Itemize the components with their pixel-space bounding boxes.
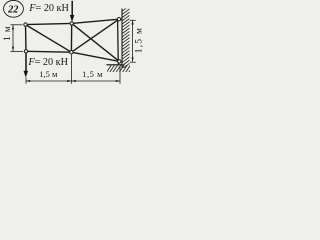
middle vertical member D-C [70,23,72,52]
dimension 1.5m right: line with arrows [132,20,134,61]
support shelf hatching under node F [106,64,134,73]
support shelf line [107,64,123,66]
node D [70,22,73,25]
diagonal member C-E [71,19,119,52]
svg-text:F= 20 кН: F= 20 кН [27,57,68,68]
node B [24,50,27,53]
svg-text:1,5 м: 1,5 м [39,69,58,79]
diagonal member D-F [72,23,120,61]
right vertical member E-F [117,20,120,65]
force F2 arrow (at node B) [24,52,29,78]
dimension 1.5m bottom-right: line with arrows [72,80,121,82]
dimension 1.5m bottom-left: line with arrows [26,80,72,82]
svg-text:1,5 м: 1,5 м [82,69,103,79]
node C [70,51,73,54]
diagonal member A-C [26,25,72,53]
dimension 1m left: line with arrows [12,25,14,51]
bottom chord C-F [71,52,119,61]
node A [24,23,27,26]
dimension 1.5m right: extension ticks [130,19,136,21]
svg-text:F= 20 кН: F= 20 кН [28,3,69,14]
wall face line [121,9,123,69]
node F [118,60,121,63]
wall hatching [121,5,131,70]
svg-text:1 м: 1 м [3,26,13,41]
stub E to wall [119,18,122,20]
top chord A-D-E [26,19,120,24]
svg-text:22: 22 [7,4,18,15]
dimension 1.5m bottom-left: extensions [25,78,27,84]
left vertical member A-B [25,25,28,52]
dimension 1.5m bottom-right: extension [119,67,121,84]
force F1 arrow (top, at node D) [70,1,75,22]
bottom chord B-C [26,50,71,53]
dimension 1m left: extension ticks [11,24,23,26]
node E [117,18,120,21]
problem number circle 22 [4,0,24,17]
svg-text:1,5 м: 1,5 м [135,27,145,54]
